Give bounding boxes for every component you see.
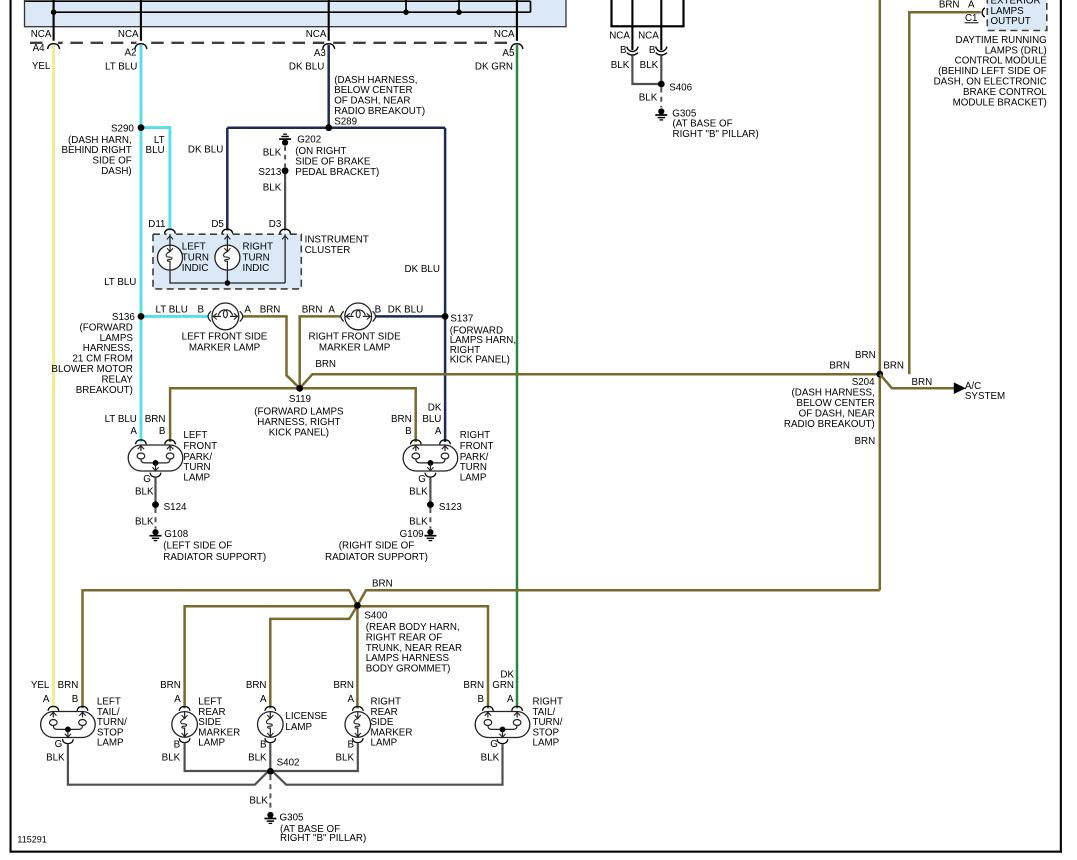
svg-text:RELAY: RELAY xyxy=(101,374,133,385)
svg-text:B: B xyxy=(174,739,181,750)
svg-text:BRN: BRN xyxy=(463,680,484,691)
splice S213 xyxy=(258,167,288,178)
svg-text:BRN: BRN xyxy=(855,350,876,361)
svg-text:BLK: BLK xyxy=(248,753,267,764)
wire internal bus riser xyxy=(530,1,532,12)
svg-text:G: G xyxy=(143,474,151,485)
svg-text:INDIC: INDIC xyxy=(243,263,270,274)
svg-text:BLK: BLK xyxy=(640,60,659,71)
wire D3 riser with up arrow xyxy=(282,234,288,283)
wire BRN rear bus upper right from S400 to S204 vertical xyxy=(357,590,879,605)
svg-text:S406: S406 xyxy=(669,82,692,93)
ground G109 xyxy=(400,529,437,541)
label LEFT FRONT SIDE MARKER LAMP xyxy=(182,332,268,354)
svg-text:BLK: BLK xyxy=(481,753,500,764)
wire BLK left park G to S124 xyxy=(154,477,156,504)
lamp right front side marker xyxy=(341,303,376,330)
svg-text:SIDE OF BRAKE: SIDE OF BRAKE xyxy=(295,157,371,168)
svg-text:FRONT: FRONT xyxy=(183,441,217,452)
svg-text:LT BLU: LT BLU xyxy=(105,414,137,425)
svg-text:D11: D11 xyxy=(148,219,165,230)
svg-text:BRN: BRN xyxy=(372,578,393,589)
svg-text:LT BLU: LT BLU xyxy=(104,277,136,288)
svg-text:BLK: BLK xyxy=(162,753,181,764)
label LT BLU pin A left park lamp xyxy=(105,414,138,437)
wire right indicator to bus xyxy=(226,270,228,283)
svg-text:LAMPS: LAMPS xyxy=(100,333,134,344)
wire BLK right rear marker B to S402 xyxy=(270,743,357,771)
svg-text:BRN: BRN xyxy=(246,680,267,691)
junction on bus xyxy=(51,9,57,15)
junction on bus xyxy=(456,9,462,15)
svg-text:A2: A2 xyxy=(125,48,137,59)
svg-text:B: B xyxy=(72,694,79,705)
splice S400 xyxy=(354,602,388,621)
wire stub up from bus xyxy=(405,0,407,12)
svg-text:CLUSTER: CLUSTER xyxy=(305,245,351,256)
label INSTRUMENT CLUSTER xyxy=(305,234,369,256)
svg-text:A: A xyxy=(130,426,137,437)
ground G108 xyxy=(150,529,189,541)
label DK GRN pin A right tail xyxy=(492,670,514,705)
svg-text:DK: DK xyxy=(428,402,442,413)
label DK BLU pin A right park lamp xyxy=(422,402,442,437)
svg-text:(ON RIGHT: (ON RIGHT xyxy=(295,146,346,157)
wire LT BLU S136 to left front marker xyxy=(141,315,209,318)
svg-text:BODY GROMMET): BODY GROMMET) xyxy=(366,664,451,675)
svg-text:BLU: BLU xyxy=(422,414,441,425)
svg-text:BRN: BRN xyxy=(160,680,181,691)
connector pin A2 xyxy=(105,41,147,73)
svg-text:BLK: BLK xyxy=(409,486,428,497)
svg-text:B: B xyxy=(347,739,354,750)
wire BRN vertical from top to S400 bus xyxy=(879,0,882,590)
svg-text:LAMPS (DRL): LAMPS (DRL) xyxy=(985,45,1047,56)
wire BRN rear bus upper left from S400 to left tail B xyxy=(83,590,358,708)
label YEL pin A left tail xyxy=(31,680,50,705)
svg-text:A: A xyxy=(968,0,975,10)
svg-text:B: B xyxy=(620,45,627,56)
svg-text:BLOWER MOTOR: BLOWER MOTOR xyxy=(51,364,132,375)
wire DK BLU S289 horizontal xyxy=(227,126,445,129)
wire BLK right park G to S123 xyxy=(429,477,431,504)
lamp left turn indicator xyxy=(158,242,210,274)
label LEFT FRONT PARK TURN LAMP xyxy=(183,430,217,483)
svg-text:RIGHT: RIGHT xyxy=(460,430,490,441)
junction on bus xyxy=(403,9,409,15)
svg-text:BRN: BRN xyxy=(302,304,323,315)
svg-text:BRN: BRN xyxy=(855,436,876,447)
svg-text:S136: S136 xyxy=(112,312,135,323)
wire NCA stub to A2 xyxy=(140,0,142,43)
lamp right tail turn stop xyxy=(475,706,530,743)
svg-text:BLU: BLU xyxy=(146,145,165,156)
svg-text:BLK: BLK xyxy=(611,60,630,71)
splice S406 xyxy=(658,81,693,94)
svg-text:BLK: BLK xyxy=(335,753,354,764)
svg-text:LAMP: LAMP xyxy=(285,722,312,733)
connector C1 xyxy=(965,8,990,24)
splice S204 junction xyxy=(852,371,883,388)
svg-text:NCA: NCA xyxy=(118,29,139,40)
label BRN pin B right tail xyxy=(463,680,484,705)
connector C2 dashed boundary line xyxy=(30,42,521,44)
lamp left front park turn xyxy=(128,440,183,477)
svg-text:115291: 115291 xyxy=(17,834,46,844)
wire stub up from bus xyxy=(458,0,460,12)
svg-text:A: A xyxy=(43,694,50,705)
svg-text:(RIGHT SIDE OF: (RIGHT SIDE OF xyxy=(339,540,414,551)
wire DK BLU down to D5 xyxy=(226,128,229,231)
svg-text:BLK: BLK xyxy=(263,148,282,159)
svg-text:B: B xyxy=(260,739,267,750)
label S290 location xyxy=(61,135,131,177)
svg-text:NCA: NCA xyxy=(494,29,515,40)
svg-text:RIGHT: RIGHT xyxy=(243,242,273,253)
label G108 location xyxy=(163,540,266,563)
label BRN pin B left park lamp xyxy=(145,414,166,437)
svg-text:B: B xyxy=(405,426,412,437)
splice S136 xyxy=(112,312,135,323)
lamp left front side marker xyxy=(208,303,243,330)
svg-text:GRN: GRN xyxy=(492,680,514,691)
DRL module exterior lamps output box (dashed, cut off at top) xyxy=(987,0,1047,31)
splice S124 xyxy=(152,501,187,513)
svg-text:G109: G109 xyxy=(400,529,424,540)
svg-text:MODULE BRACKET): MODULE BRACKET) xyxy=(953,97,1047,108)
svg-text:A: A xyxy=(435,426,442,437)
svg-text:(REAR BODY HARN,: (REAR BODY HARN, xyxy=(366,622,460,633)
svg-text:BRN: BRN xyxy=(260,304,281,315)
junction S136 dot xyxy=(138,313,145,320)
wire internal bus lower xyxy=(54,11,531,13)
wire BLK dashed S402 to G305 xyxy=(269,775,271,811)
svg-text:(FORWARD: (FORWARD xyxy=(80,322,133,333)
page frame right border xyxy=(1060,0,1062,853)
wire BLK S213 to D3 xyxy=(284,171,286,231)
splice S289 xyxy=(325,124,332,131)
connector pin B right xyxy=(649,45,667,56)
arrowhead to AC system xyxy=(954,382,966,394)
brake-turn module box (cut off at top) xyxy=(612,0,684,26)
label LEFT TAIL TURN STOP LAMP xyxy=(97,697,127,749)
label BRN pin B right park lamp xyxy=(391,414,412,437)
svg-text:LAMP: LAMP xyxy=(533,738,560,749)
svg-text:BLK: BLK xyxy=(249,796,268,807)
svg-text:G: G xyxy=(490,739,498,750)
svg-text:(LEFT SIDE OF: (LEFT SIDE OF xyxy=(163,540,232,551)
wire YEL from A4 to left tail lamp xyxy=(52,44,55,708)
svg-text:LAMP: LAMP xyxy=(460,472,487,483)
wire BLK left rear marker B to S402 xyxy=(185,743,271,771)
svg-text:SIDE OF: SIDE OF xyxy=(92,156,131,167)
connector pin A4 xyxy=(32,41,60,72)
wire BLK dashed S406 to G305 xyxy=(660,88,662,108)
instrument cluster box xyxy=(153,234,301,289)
svg-text:BELOW CENTER: BELOW CENTER xyxy=(796,398,874,409)
splice S137 xyxy=(442,313,474,325)
svg-text:A4: A4 xyxy=(33,43,46,54)
svg-text:FRONT: FRONT xyxy=(460,441,494,452)
svg-text:BRN: BRN xyxy=(939,0,960,10)
svg-text:DK GRN: DK GRN xyxy=(475,61,513,72)
svg-text:LAMP: LAMP xyxy=(97,738,124,749)
wire BRN S400 to license lamp A xyxy=(270,606,357,709)
svg-text:LEFT: LEFT xyxy=(182,242,206,253)
label LT BLU branch xyxy=(146,135,165,156)
svg-text:S137: S137 xyxy=(450,314,473,325)
wire BRN left marker A to S119 xyxy=(243,316,300,388)
connector pin D11 xyxy=(148,219,175,236)
svg-text:DK BLU: DK BLU xyxy=(289,61,324,72)
turn signal switch module box (cut off at top) xyxy=(25,0,567,27)
label A/C SYSTEM xyxy=(965,381,1005,402)
connector pin A3 xyxy=(289,41,335,73)
svg-text:OF DASH, NEAR: OF DASH, NEAR xyxy=(799,408,875,419)
wire BLK right B down to S406 xyxy=(660,55,662,84)
wire BRN from DRL C1 output xyxy=(909,12,980,374)
svg-text:S402: S402 xyxy=(277,758,300,769)
splice S402 xyxy=(267,758,299,775)
svg-text:BRAKE CONTROL: BRAKE CONTROL xyxy=(963,87,1047,98)
ground G202 (inverted) xyxy=(279,134,379,178)
connector pin D3 xyxy=(269,219,291,236)
svg-text:G: G xyxy=(55,739,63,750)
junction on cluster bus xyxy=(225,280,231,286)
wire D11 entry with up arrow xyxy=(167,234,173,245)
svg-text:BRN: BRN xyxy=(912,377,933,388)
svg-text:A3: A3 xyxy=(314,48,327,59)
connector pin D5 xyxy=(211,219,232,236)
label RIGHT FRONT SIDE MARKER LAMP xyxy=(309,332,402,354)
splice S119 xyxy=(289,385,311,405)
label BRN pin A left rear marker xyxy=(160,680,181,705)
svg-text:A: A xyxy=(260,694,267,705)
svg-text:S204: S204 xyxy=(852,377,875,388)
label LEFT REAR SIDE MARKER LAMP xyxy=(198,697,240,749)
wire DK GRN from A5 to right tail lamp xyxy=(516,44,519,708)
svg-text:BRN: BRN xyxy=(883,360,904,371)
svg-text:INSTRUMENT: INSTRUMENT xyxy=(305,234,369,245)
svg-text:BREAKOUT): BREAKOUT) xyxy=(76,385,133,396)
svg-text:S119: S119 xyxy=(289,394,311,405)
svg-text:NCA: NCA xyxy=(638,31,659,42)
svg-text:A: A xyxy=(244,304,251,315)
wire BRN S204 to AC system arrow xyxy=(880,374,956,388)
svg-text:DASH, ON ELECTRONIC: DASH, ON ELECTRONIC xyxy=(934,77,1047,88)
wire BRN S400 to right tail B xyxy=(357,606,488,709)
wire BRN S119 left bus to left park turn lamp B xyxy=(170,388,300,442)
svg-text:A: A xyxy=(507,694,514,705)
svg-text:21 CM FROM: 21 CM FROM xyxy=(72,354,132,365)
svg-text:LT BLU: LT BLU xyxy=(155,304,187,315)
wire LT BLU S290 branch to D11 xyxy=(141,128,170,231)
svg-text:(DASH HARNESS,: (DASH HARNESS, xyxy=(334,75,417,86)
label S204 location xyxy=(784,388,875,430)
label LICENSE LAMP xyxy=(285,711,327,733)
svg-text:B: B xyxy=(159,426,166,437)
wire D5 entry with up arrow xyxy=(224,234,230,245)
wire BLK dashed S124 to G108 xyxy=(155,508,157,529)
svg-text:D3: D3 xyxy=(269,219,282,230)
svg-text:S213: S213 xyxy=(258,167,281,178)
svg-text:B: B xyxy=(375,304,382,315)
svg-text:RADIO BREAKOUT): RADIO BREAKOUT) xyxy=(334,106,425,117)
wire BRN S400 to right rear marker A xyxy=(356,606,359,709)
svg-text:A: A xyxy=(328,304,335,315)
label RIGHT FRONT PARK TURN LAMP xyxy=(460,430,494,483)
svg-text:CONTROL MODULE: CONTROL MODULE xyxy=(955,56,1048,67)
svg-text:YEL: YEL xyxy=(32,61,51,72)
svg-text:(DASH HARN,: (DASH HARN, xyxy=(68,135,132,146)
svg-text:MARKER LAMP: MARKER LAMP xyxy=(319,342,391,353)
svg-text:(DASH HARNESS,: (DASH HARNESS, xyxy=(792,388,875,399)
svg-text:OUTPUT: OUTPUT xyxy=(991,16,1031,27)
svg-text:LAMP: LAMP xyxy=(198,738,225,749)
svg-text:PEDAL BRACKET): PEDAL BRACKET) xyxy=(295,167,379,178)
label DAYTIME RUNNING LAMPS (DRL) CONTROL MODULE xyxy=(934,35,1048,108)
svg-text:S290: S290 xyxy=(111,124,134,135)
svg-text:D5: D5 xyxy=(211,219,224,230)
splice S290 xyxy=(111,124,144,135)
wire NCA right pin B xyxy=(660,0,662,50)
wire BRN S400 to left rear marker A xyxy=(185,606,358,709)
label G109 location xyxy=(325,540,428,563)
svg-text:A: A xyxy=(347,694,354,705)
lamp license xyxy=(258,707,284,743)
svg-text:KICK PANEL): KICK PANEL) xyxy=(269,427,329,438)
svg-text:A: A xyxy=(174,694,181,705)
wire DK BLU from A3 to S289 xyxy=(327,44,330,128)
label RIGHT TAIL TURN STOP LAMP xyxy=(533,697,563,749)
svg-text:BRN: BRN xyxy=(333,680,354,691)
svg-text:RIGHT FRONT SIDE: RIGHT FRONT SIDE xyxy=(309,332,402,343)
svg-text:BELOW CENTER: BELOW CENTER xyxy=(334,85,412,96)
svg-text:BRN: BRN xyxy=(145,414,166,425)
svg-text:S289: S289 xyxy=(334,116,357,127)
wire NCA left pin B xyxy=(631,0,633,50)
label S137 location xyxy=(450,326,516,366)
svg-text:LAMP: LAMP xyxy=(183,472,210,483)
svg-text:(FORWARD LAMPS: (FORWARD LAMPS xyxy=(254,407,344,418)
svg-text:G: G xyxy=(418,474,426,485)
wire BLK dashed G202 to S213 xyxy=(284,146,286,167)
label BRN pin B left tail xyxy=(58,680,79,705)
svg-text:RADIATOR SUPPORT): RADIATOR SUPPORT) xyxy=(163,552,266,563)
svg-text:LEFT: LEFT xyxy=(183,430,207,441)
label RIGHT REAR SIDE MARKER LAMP xyxy=(371,697,413,749)
svg-text:S123: S123 xyxy=(439,502,462,513)
svg-text:BLK: BLK xyxy=(263,183,282,194)
svg-text:INDIC: INDIC xyxy=(182,263,209,274)
svg-text:NCA: NCA xyxy=(306,29,327,40)
svg-text:BRN: BRN xyxy=(829,360,850,371)
svg-text:(BEHIND LEFT SIDE OF: (BEHIND LEFT SIDE OF xyxy=(938,66,1047,77)
svg-text:B: B xyxy=(649,45,656,56)
svg-text:G108: G108 xyxy=(164,529,189,540)
svg-text:S124: S124 xyxy=(164,502,187,513)
svg-text:HARNESS,: HARNESS, xyxy=(83,343,133,354)
wire BLK license B to S402 xyxy=(269,743,271,772)
svg-text:SYSTEM: SYSTEM xyxy=(965,391,1005,402)
lamp left rear side marker xyxy=(172,707,198,743)
lamp right turn indicator xyxy=(215,242,273,274)
svg-text:TURN: TURN xyxy=(182,252,209,263)
wire BLK right tail G to ground bus xyxy=(273,744,502,785)
wire BLK left tail G to ground bus xyxy=(68,744,268,785)
svg-text:LAMP: LAMP xyxy=(371,738,398,749)
page frame left border xyxy=(10,0,12,853)
lamp right rear side marker xyxy=(345,707,371,743)
svg-text:BEHIND RIGHT: BEHIND RIGHT xyxy=(61,145,131,156)
svg-text:MARKER LAMP: MARKER LAMP xyxy=(189,342,261,353)
svg-text:HARNESS, RIGHT: HARNESS, RIGHT xyxy=(257,417,340,428)
svg-text:LICENSE: LICENSE xyxy=(285,711,327,722)
svg-text:A5: A5 xyxy=(502,48,515,59)
svg-text:BLK: BLK xyxy=(135,486,154,497)
wire DK BLU down to S137 and right park turn lamp xyxy=(444,128,447,442)
label BRN pin A license xyxy=(246,680,267,705)
lamp left tail turn stop xyxy=(41,706,96,743)
svg-text:TRUNK, NEAR REAR: TRUNK, NEAR REAR xyxy=(366,643,462,654)
label S136 location xyxy=(51,322,133,395)
svg-text:RIGHT "B" PILLAR): RIGHT "B" PILLAR) xyxy=(673,129,759,140)
svg-text:TURN: TURN xyxy=(243,252,270,263)
svg-text:BLK: BLK xyxy=(135,516,154,527)
svg-text:RIGHT REAR OF: RIGHT REAR OF xyxy=(366,632,443,643)
wire BLK left B down and over to S406 xyxy=(632,55,661,84)
ground G305 lower xyxy=(264,812,304,824)
svg-text:LAMPS HARNESS: LAMPS HARNESS xyxy=(366,653,450,664)
svg-text:LEFT FRONT SIDE: LEFT FRONT SIDE xyxy=(182,332,268,343)
label G305 location xyxy=(280,824,366,844)
wire BRN right marker A to S119 xyxy=(300,316,342,388)
wire BRN S119 to S204 long run xyxy=(300,374,880,388)
wire internal bus top xyxy=(25,0,530,2)
svg-text:BLK: BLK xyxy=(639,93,658,104)
wire NCA stub to A4 xyxy=(53,0,55,43)
wire LT BLU from A2 xyxy=(140,44,143,442)
label BRN pin A right rear marker xyxy=(333,680,354,705)
wire NCA stub to A3 xyxy=(328,0,330,43)
svg-text:RIGHT "B" PILLAR): RIGHT "B" PILLAR) xyxy=(280,833,366,844)
svg-text:NCA: NCA xyxy=(609,31,630,42)
label S119 location xyxy=(254,407,344,439)
svg-text:BRN: BRN xyxy=(391,414,412,425)
wire BRN S119 right bus to right park turn lamp B xyxy=(300,388,416,442)
svg-text:BLK: BLK xyxy=(46,753,65,764)
svg-text:KICK PANEL): KICK PANEL) xyxy=(450,355,510,366)
wire BLK dashed S123 to G109 xyxy=(429,508,431,529)
svg-text:NCA: NCA xyxy=(31,29,52,40)
svg-text:B: B xyxy=(478,694,485,705)
svg-text:B: B xyxy=(197,304,204,315)
connector pin B left xyxy=(620,45,638,56)
svg-text:BRN: BRN xyxy=(315,359,336,370)
label S289 location xyxy=(334,75,425,128)
ground G305 upper xyxy=(655,108,758,139)
wire cluster internal ground bus xyxy=(170,270,285,283)
svg-text:DK BLU: DK BLU xyxy=(405,264,440,275)
svg-text:A/C: A/C xyxy=(965,381,981,392)
wire NCA stub to A5 xyxy=(516,0,518,43)
svg-text:YEL: YEL xyxy=(31,680,50,691)
svg-text:OF DASH, NEAR: OF DASH, NEAR xyxy=(334,96,410,107)
connector pin A5 xyxy=(475,41,523,73)
page frame bottom border xyxy=(10,851,1062,853)
wire DK BLU right marker B to S137 xyxy=(375,315,445,318)
svg-text:BRN: BRN xyxy=(58,680,79,691)
